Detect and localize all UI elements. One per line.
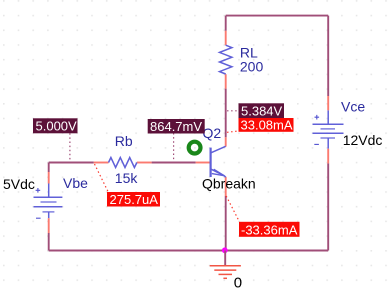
- svg-text:15k: 15k: [115, 170, 139, 186]
- bias badge 275.7uA: [107, 192, 160, 207]
- svg-text:33.08mA: 33.08mA: [241, 118, 293, 133]
- ground symbol: [210, 266, 241, 279]
- wire bottom horizontal: [49, 250, 329, 252]
- resistor Rb: [109, 158, 137, 168]
- wire RL to Q2 collector: [225, 89, 227, 138]
- svg-text:864.7mV: 864.7mV: [150, 119, 202, 134]
- pin RL top: [225, 31, 227, 45]
- bias leader for 5.384V: [227, 110, 239, 112]
- battery minus sign: [314, 143, 319, 145]
- pin Vce top: [327, 96, 329, 110]
- wire middle horizontal left: [49, 162, 94, 164]
- pin Q2 collector: [225, 137, 227, 146]
- wire right vertical upper: [327, 16, 329, 96]
- battery plus sign: [36, 188, 41, 193]
- svg-text:5Vdc: 5Vdc: [3, 176, 35, 192]
- bias badge 33.08mA: [239, 118, 294, 133]
- pin Rb left: [94, 162, 109, 164]
- resistor RL: [220, 45, 232, 74]
- pin Q2 base: [196, 162, 211, 164]
- bias leader for 864.7mV: [173, 133, 175, 162]
- bias leader for 33.08mA: [227, 131, 239, 132]
- svg-text:Qbreakn: Qbreakn: [202, 176, 256, 192]
- bias badge 5.384V: [239, 103, 285, 118]
- wire RL top stub: [225, 16, 227, 31]
- transistor Q2: [211, 146, 226, 177]
- wire top horizontal: [226, 15, 329, 17]
- current probe marker green ring: [189, 142, 201, 154]
- svg-text:275.7uA: 275.7uA: [110, 192, 159, 207]
- pin Vbe top: [48, 172, 50, 184]
- wire middle horizontal right: [152, 162, 196, 164]
- wire left vertical lower: [48, 233, 50, 251]
- pin Vbe bottom: [48, 218, 50, 233]
- voltage source Vce battery: [313, 110, 344, 148]
- svg-text:Q2: Q2: [203, 125, 222, 141]
- svg-text:0: 0: [234, 275, 242, 292]
- bias badge -33.36mA: [239, 222, 300, 238]
- pin Q2 emitter: [225, 177, 227, 196]
- ground stub wire: [224, 251, 226, 266]
- svg-text:5.000V: 5.000V: [36, 119, 78, 134]
- wire Q2 emitter to bottom: [225, 196, 227, 251]
- junction node dot: [222, 247, 228, 253]
- wire left vertical upper: [48, 163, 50, 173]
- bias badge 864.7mV: [148, 119, 205, 134]
- voltage source Vbe battery: [34, 184, 63, 219]
- svg-text:-33.36mA: -33.36mA: [241, 222, 298, 237]
- pin RL bottom: [225, 74, 227, 88]
- bias leader for 5.000V: [69, 133, 71, 161]
- svg-text:Vbe: Vbe: [63, 175, 88, 191]
- battery plus sign: [315, 115, 320, 120]
- svg-text:200: 200: [240, 59, 264, 75]
- pin Rb right: [137, 162, 152, 164]
- wire right vertical lower: [327, 163, 329, 250]
- bias leader for -33.36mA: [226, 196, 239, 222]
- bias badge 5.000V: [33, 118, 78, 133]
- svg-text:Rb: Rb: [115, 133, 133, 149]
- svg-text:Vce: Vce: [341, 98, 365, 114]
- svg-text:5.384V: 5.384V: [241, 104, 283, 119]
- bias leader for 275.7uA: [95, 164, 109, 192]
- svg-text:12Vdc: 12Vdc: [343, 132, 383, 148]
- battery minus sign: [36, 217, 41, 219]
- pin Vce bottom: [327, 149, 329, 164]
